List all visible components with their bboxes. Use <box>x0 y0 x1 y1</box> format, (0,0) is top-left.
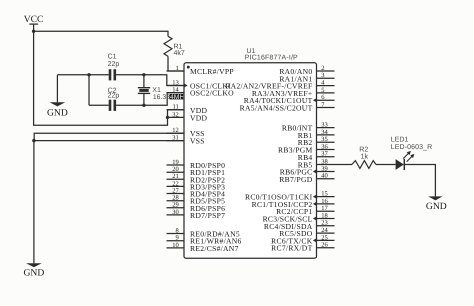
svg-text:MCLR#/VPP: MCLR#/VPP <box>190 67 234 76</box>
pin 21 RD2/PSP2 (left) <box>167 173 226 184</box>
pin 27 RD4/PSP4 (left) <box>167 187 226 198</box>
resistor R2 <box>352 147 376 169</box>
svg-text:34: 34 <box>321 129 328 136</box>
capacitor C2 <box>108 88 120 111</box>
svg-text:22p: 22p <box>108 93 120 100</box>
svg-text:40: 40 <box>321 173 328 180</box>
svg-text:32: 32 <box>172 111 179 118</box>
pin 13 OSC1/CLKI (left) <box>167 79 232 90</box>
svg-text:5: 5 <box>321 87 324 94</box>
svg-text:RB7/PGD: RB7/PGD <box>279 175 312 184</box>
pin 11 VDD (left) <box>167 104 208 115</box>
svg-text:GND: GND <box>426 201 447 212</box>
pin 10 RE2/CS#/AN7 (left) <box>167 242 239 253</box>
svg-text:13: 13 <box>172 79 179 86</box>
wire R1 to MCLR pin1 <box>168 56 184 71</box>
svg-text:2: 2 <box>321 65 324 72</box>
svg-text:22: 22 <box>172 180 179 187</box>
pin 12 VSS (left) <box>167 127 205 138</box>
svg-text:1k: 1k <box>361 153 369 161</box>
IC U1 PIC16F877A-I/P body <box>184 63 317 258</box>
wire RB5 to R2 <box>335 164 353 166</box>
LED LED1 <box>391 137 432 170</box>
svg-text:17: 17 <box>321 205 328 212</box>
svg-text:PIC16F877A-I/P: PIC16F877A-I/P <box>245 54 298 62</box>
svg-text:4k7: 4k7 <box>174 49 185 57</box>
svg-text:10: 10 <box>172 242 179 249</box>
pin 33 RB0/INT (right) <box>282 122 335 133</box>
node crystal top junction <box>142 73 145 76</box>
pin 5 RA3/AN3/VREF+ (right) <box>252 87 335 98</box>
wire VSS to ground <box>33 141 35 264</box>
power VCC <box>24 14 44 31</box>
svg-text:37: 37 <box>321 151 328 158</box>
svg-text:14: 14 <box>172 87 179 94</box>
wire LED1 to ground <box>405 165 436 197</box>
svg-text:RE2/CS#/AN7: RE2/CS#/AN7 <box>190 244 239 253</box>
node VCC junction <box>32 30 35 33</box>
node GND rail junction <box>87 73 90 76</box>
svg-text:16: 16 <box>321 198 328 205</box>
svg-text:36: 36 <box>321 143 328 150</box>
wire VDD pin11 to pin32 <box>168 109 185 111</box>
pin 8 RE0/RD#/AN5 (left) <box>167 227 240 238</box>
wire GND rail drop to C2 <box>88 75 90 106</box>
pin 15 RC0/T1OSO/T1CKI (right) <box>245 191 335 202</box>
svg-text:LED1: LED1 <box>391 137 409 144</box>
svg-text:23: 23 <box>321 220 328 227</box>
pin 23 RC4/SDI/SDA (right) <box>264 220 335 231</box>
svg-text:8: 8 <box>176 227 179 234</box>
resistor R1 <box>164 36 185 57</box>
svg-text:GND: GND <box>47 107 68 118</box>
pin 2 RA0/AN0 (right) <box>279 65 334 76</box>
pin 1 MCLR#/VPP (left) <box>167 65 234 76</box>
pin 38 RB5 (right) <box>298 158 335 169</box>
node crystal bottom junction <box>142 104 145 107</box>
svg-text:31: 31 <box>172 135 179 142</box>
svg-text:VDD: VDD <box>190 113 208 122</box>
svg-text:3: 3 <box>321 72 324 79</box>
pin 35 RB2 (right) <box>298 136 335 147</box>
pin 30 RD7/PSP7 (left) <box>167 209 226 220</box>
svg-text:29: 29 <box>172 202 179 209</box>
pin 16 RC1/T1OSI/CCP2 (right) <box>252 198 335 209</box>
svg-text:38: 38 <box>321 158 328 165</box>
pin 37 RB4 (right) <box>298 151 335 162</box>
capacitor C1 <box>108 54 120 81</box>
svg-text:35: 35 <box>321 136 328 143</box>
pin 31 VSS (left) <box>167 135 205 146</box>
wire VSS pin31 <box>34 140 184 142</box>
wire OSC2 net bottom <box>89 104 109 106</box>
svg-text:C1: C1 <box>108 54 117 61</box>
wire VSS pin12 <box>34 133 184 140</box>
pin 36 RB3/PGM (right) <box>278 143 334 154</box>
node VSS junction <box>32 139 35 142</box>
svg-text:27: 27 <box>172 187 179 194</box>
svg-text:GND: GND <box>24 267 45 278</box>
svg-text:RA5/AN4/SS/C2OUT: RA5/AN4/SS/C2OUT <box>240 104 313 113</box>
ground LED return <box>426 196 447 211</box>
svg-text:39: 39 <box>321 165 328 172</box>
pin 18 RC3/SCK/SCL (right) <box>263 212 335 223</box>
label X1 value 16.384MHz with dark box <box>153 94 188 101</box>
pin 3 RA1/AN1 (right) <box>279 72 334 83</box>
svg-text:26: 26 <box>321 242 328 249</box>
svg-text:11: 11 <box>173 104 179 111</box>
pin 26 RC7/RX/DT (right) <box>271 242 334 253</box>
pin 29 RD6/PSP6 (left) <box>167 202 226 213</box>
svg-text:21: 21 <box>172 173 179 180</box>
svg-text:VCC: VCC <box>24 14 44 25</box>
pin 19 RD0/PSP0 (left) <box>167 159 226 170</box>
svg-text:28: 28 <box>172 195 179 202</box>
pin 4 RA2/AN2/VREF-/CVREF (right) <box>225 80 334 91</box>
svg-text:RD7/PSP7: RD7/PSP7 <box>190 211 225 220</box>
svg-text:22p: 22p <box>108 61 120 68</box>
svg-text:33: 33 <box>321 122 328 129</box>
wire OSC1 net top <box>57 74 108 76</box>
pin 6 RA4/T0CKI/C1OUT (right) <box>244 94 335 105</box>
pin 28 RD5/PSP5 (left) <box>167 195 226 206</box>
svg-text:12: 12 <box>172 127 179 134</box>
wire GND branch of crystal <box>56 75 58 103</box>
pin 14 OSC2/CLKO (left) <box>167 87 235 98</box>
pin 32 VDD (left) <box>167 111 208 122</box>
svg-text:15: 15 <box>321 191 328 198</box>
svg-text:RC7/RX/DT: RC7/RX/DT <box>271 244 312 253</box>
svg-text:25: 25 <box>321 234 328 241</box>
pin 25 RC6/TX/CK (right) <box>271 234 334 245</box>
svg-text:18: 18 <box>321 212 328 219</box>
ground crystal GND <box>47 102 68 118</box>
svg-text:19: 19 <box>172 159 179 166</box>
wire VCC to R1 <box>34 31 168 36</box>
pin 17 RC2/CCP1 (right) <box>276 205 334 216</box>
pin 9 RE1/WR#/AN6 (left) <box>167 235 242 246</box>
pin 7 RA5/AN4/SS/C2OUT (right) <box>240 101 335 112</box>
node VDD junction <box>166 116 169 119</box>
wire VCC rail to VDD pins <box>34 31 168 125</box>
pin 24 RC5/SDO (right) <box>279 227 334 238</box>
svg-text:VSS: VSS <box>190 137 205 146</box>
svg-text:4MH: 4MH <box>170 94 184 101</box>
ground bottom left <box>24 263 45 278</box>
wire R2 to LED1 <box>376 164 396 166</box>
pin 20 RD1/PSP1 (left) <box>167 166 226 177</box>
pin 40 RB7/PGD (right) <box>279 173 334 184</box>
svg-text:24: 24 <box>321 227 328 234</box>
crystal X1 <box>138 75 161 106</box>
svg-text:9: 9 <box>176 235 179 242</box>
svg-text:1: 1 <box>176 65 179 72</box>
pin 34 RB1 (right) <box>298 129 335 140</box>
svg-text:LED-0603_R: LED-0603_R <box>391 144 432 151</box>
pin 22 RD3/PSP3 (left) <box>167 180 226 191</box>
svg-text:20: 20 <box>172 166 179 173</box>
pin 39 RB6/PGC (right) <box>280 165 335 176</box>
svg-text:30: 30 <box>172 209 179 216</box>
pin 1 marker dot <box>187 66 190 69</box>
